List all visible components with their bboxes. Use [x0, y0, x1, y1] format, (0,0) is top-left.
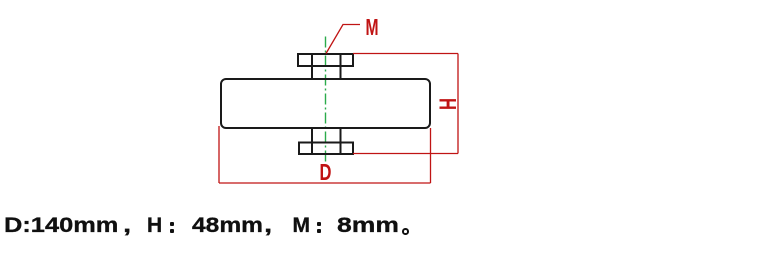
dimension H extension line top: [353, 53, 458, 55]
caption: D:140mm, H: 48mm, M: 8mm.: [0, 0, 12, 273]
top neck left edge: [311, 66, 313, 79]
svg-text:M: M: [366, 15, 379, 41]
dimension D extension line right: [430, 128, 432, 183]
svg-text:H: H: [434, 98, 461, 110]
label H (rotated): [434, 98, 461, 110]
dimension H line vertical: [457, 54, 459, 154]
dimension D extension line left: [218, 126, 220, 183]
top boss facet line right: [340, 54, 342, 66]
bottom neck left edge: [311, 128, 313, 143]
dimension D line bottom: [219, 182, 431, 184]
magnet body outline: [221, 79, 430, 128]
top neck right edge: [340, 66, 342, 79]
bottom hex boss outline: [299, 143, 353, 155]
top boss facet line left: [311, 54, 313, 66]
centerline (green dash-dot axis): [325, 37, 327, 167]
dimension H extension line bottom: [353, 153, 458, 155]
bottom boss facet line left: [311, 143, 313, 155]
label M: [366, 15, 379, 41]
leader line for M: [326, 25, 360, 54]
bottom boss facet line right: [340, 143, 342, 155]
bottom neck right edge: [340, 128, 342, 143]
svg-text:D: D: [320, 160, 332, 185]
label D: [320, 160, 332, 185]
top hex boss outline: [298, 54, 353, 66]
